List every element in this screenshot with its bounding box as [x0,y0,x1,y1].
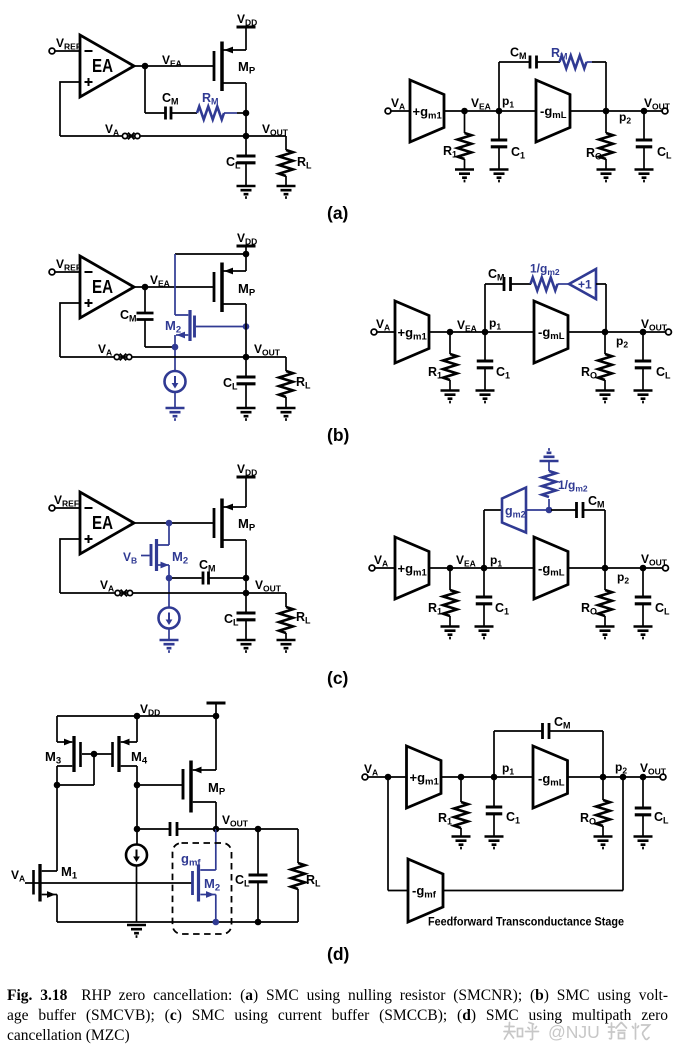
transistor M4 [111,742,114,767]
svg-text:VA: VA [391,96,405,112]
capacitor CL [245,136,247,156]
wire gm1 output to gmL input [444,110,536,112]
ground below C1 [475,627,494,639]
block -gmL [533,746,568,808]
node VOUT terminal [666,329,672,335]
svg-text:CL: CL [655,601,670,617]
svg-text:+1: +1 [578,278,592,292]
svg-text:VOUT: VOUT [222,813,249,829]
wire diode connection [57,754,94,785]
resistor RL [297,829,299,863]
resistor RO [604,332,606,354]
node VOUT terminal [663,565,669,571]
svg-text:VA: VA [11,868,25,884]
svg-text:p2: p2 [616,334,628,350]
svg-text:VA: VA [376,317,390,333]
op-amp EA [80,35,134,97]
wire EA output to MP gate [134,522,214,524]
wire p1 up to CM branch [485,284,504,332]
wire feedback from EA plus input [60,82,80,136]
node VA break symbol [122,133,140,140]
svg-text:RO: RO [580,811,596,827]
power VDD rail [57,715,216,717]
node VA break symbol [114,354,132,361]
node gm2-1/gm2 junction [546,507,553,514]
capacitor CL [643,111,645,140]
ground below current source [166,408,185,420]
wire VA input line [25,882,192,884]
svg-text:Feedforward Transconductance S: Feedforward Transconductance Stage [428,915,624,929]
block -gmL [534,301,568,363]
wire feedback from EA plus [60,303,80,357]
capacitor C1 [498,111,500,140]
power VDD T symbol [207,702,226,704]
ground below CL [237,640,256,652]
ground symbol [127,925,146,937]
ground below RL [277,408,296,420]
node VOUT [213,826,220,833]
svg-text:C1: C1 [511,145,525,161]
block -gmL [534,537,568,599]
node VOUT terminal [662,108,668,114]
capacitor C1 [483,568,485,597]
capacitor CM [166,107,172,120]
transistor MP [182,769,185,800]
capacitor CL [642,777,644,808]
resistor R1 [449,568,451,590]
wire M2 drain to VDD branch [175,253,246,255]
node CL junction [640,329,647,336]
resistor RM [197,107,224,120]
node feedforward tap [620,774,627,781]
node VA terminal [371,329,377,335]
op-amp EA [80,256,134,318]
wire VA / VOUT line [60,592,286,594]
wire feedback from EA plus [60,539,80,593]
ground below RO [596,627,615,639]
wire gm1 output to gmL input [429,331,534,333]
ground below RO [594,837,613,849]
node VOUT [243,590,250,597]
svg-text:CM: CM [199,558,216,574]
node M4 drain / MP gate [134,782,141,789]
node p2 [603,108,610,115]
svg-text:RL: RL [306,873,321,889]
resistor RO [602,777,604,800]
svg-text:CL: CL [656,365,671,381]
svg-text:p2: p2 [615,760,627,776]
buffer +1 [569,269,596,299]
ground rail [57,921,298,923]
svg-text:VDD: VDD [237,231,257,247]
resistor R1 [464,111,466,133]
wire VREF to EA minus [55,271,80,273]
transistor M3 [57,716,72,742]
svg-text:M3: M3 [45,749,61,767]
svg-text:p1: p1 [502,761,514,777]
capacitor C1 [484,332,486,361]
node VREF terminal [49,269,55,275]
wire MP drain down to VOUT [245,304,247,357]
wire gm1 output to gmL input [441,776,533,778]
wire gm1 output to gmL input [429,567,534,569]
svg-text:M2: M2 [165,318,181,336]
svg-text:R1: R1 [438,811,452,827]
resistor R1 [449,332,451,354]
svg-text:VEA: VEA [471,96,491,112]
wire gmf output to p2 [443,777,623,891]
svg-text:(a): (a) [327,203,348,223]
ground below CL [634,391,653,403]
wire node to CM [551,509,576,511]
transistor MP [213,272,216,302]
wire p1 up to gm2 input [484,510,502,568]
resistor RL [285,136,287,150]
svg-text:VEA: VEA [456,553,476,569]
node CL junction [640,565,647,572]
ground below current source [160,640,179,652]
wire VEA down to CM [145,66,166,113]
node VA break symbol [115,590,133,597]
svg-text:VREF: VREF [56,36,81,52]
wire RM to VOUT branch [224,112,237,114]
capacitor CM [203,572,209,585]
svg-text:M2: M2 [172,549,188,567]
node VREF terminal [49,505,55,511]
ground below C1 [476,391,495,403]
svg-text:RL: RL [297,155,312,171]
resistor R1 [460,777,462,802]
node p1 [481,565,488,572]
node M2 source / CM junction [172,344,179,351]
wire VA to gm1 [391,110,410,112]
block gm2 current buffer [502,488,526,533]
svg-text:CM: CM [554,715,571,731]
node VOUT terminal [660,774,666,780]
wire gm2 output to node [526,509,549,511]
capacitor CM [543,723,550,739]
capacitor CM [577,502,584,518]
svg-text:VA: VA [98,342,112,358]
wire VA to gm1 [368,776,407,778]
ground below CL [634,627,653,639]
svg-text:VOUT: VOUT [254,342,281,358]
wire buffer to p2 branch [596,284,606,332]
svg-text:(c): (c) [327,668,348,688]
svg-text:1/gm2: 1/gm2 [558,478,588,494]
svg-text:p1: p1 [489,316,501,332]
current source bias [168,578,170,608]
svg-text:CM: CM [120,308,137,324]
wire gmL output to VOUT [570,110,662,112]
wire VA / VOUT line [60,356,286,358]
svg-text:CM: CM [162,91,179,107]
svg-text:VEA: VEA [150,273,170,289]
node p1 [491,774,498,781]
svg-text:VEA: VEA [162,53,182,69]
svg-text:MP: MP [238,281,256,299]
svg-text:VDD: VDD [140,702,160,718]
svg-text:p1: p1 [502,94,514,110]
current source bias [136,829,138,844]
wire feedforward input [388,777,408,891]
svg-text:CL: CL [235,873,250,889]
svg-text:M1: M1 [61,864,78,882]
svg-text:C1: C1 [496,365,510,381]
watermark knowledge-site logo text (drawn, light gray) [504,1023,650,1040]
node mirror gate [91,751,98,758]
svg-text:VDD: VDD [237,462,257,478]
resistor RO [605,111,607,133]
svg-text:C1: C1 [506,810,520,826]
node VA terminal [362,774,368,780]
svg-text:(d): (d) [327,944,349,964]
svg-text:RO: RO [581,601,597,617]
svg-text:RO: RO [581,365,597,381]
ground below R1 [441,627,460,639]
svg-text:MP: MP [238,59,256,77]
wire gmL output to VOUT [568,331,666,333]
wire M4 drain to MP gate [137,784,183,786]
wire mirror node down to compensation cap [136,785,138,829]
node VDD rail MP tap [213,713,220,720]
svg-text:VOUT: VOUT [262,122,289,138]
node CL junction [641,108,648,115]
svg-text:p1: p1 [490,553,502,569]
svg-text:EA: EA [92,56,113,76]
transistor M2 feedforward [200,829,216,870]
node M3 drain [54,782,61,789]
svg-text:CM: CM [588,494,605,510]
node VEA [447,565,454,572]
resistor RO [604,568,606,590]
op-amp EA [80,492,134,554]
wire VA to gm1 [377,331,395,333]
node p2 [600,774,607,781]
node VDD rail M4 tap [134,713,141,720]
capacitor CL [245,357,247,377]
figure caption [7,986,668,1046]
block +gm1 [410,80,444,142]
transistor MP [213,508,216,538]
wire gmL output to VOUT [568,776,661,778]
svg-text:CL: CL [657,145,672,161]
node p1 [482,329,489,336]
capacitor CL [642,568,644,597]
node CL top [255,826,262,833]
node CL junction [640,774,647,781]
ground below RO [596,391,615,403]
node VEA [142,284,149,291]
svg-text:MP: MP [208,780,226,798]
svg-text:R1: R1 [428,601,442,617]
svg-text:CL: CL [654,810,669,826]
svg-text:RL: RL [296,375,311,391]
svg-text:VEA: VEA [457,318,477,334]
wire CM to RM [171,112,197,114]
power VDD [237,26,256,28]
svg-text:EA: EA [92,277,113,297]
block +gm1 [407,746,442,808]
wire VREF to EA minus [55,507,80,509]
ground below R1 [452,837,471,849]
svg-text:CM: CM [510,46,527,62]
svg-text:M4: M4 [131,749,148,767]
transistor M2 current buffer [158,523,170,545]
wire VREF to EA minus input [55,50,80,52]
ground below CL [635,170,654,182]
resistor 1/gm2 [531,278,558,291]
svg-text:VOUT: VOUT [644,96,671,112]
capacitor CM vertical [144,287,146,313]
svg-text:VA: VA [105,122,119,138]
svg-text:R1: R1 [443,144,457,160]
node cap tap [134,826,141,833]
wire CM to 1/gm2 [511,283,532,285]
svg-text:VOUT: VOUT [255,578,282,594]
svg-text:VOUT: VOUT [641,552,668,568]
wire EA output to MP gate [134,286,214,288]
wire p1 up to CM branch [494,731,542,777]
svg-text:VDD: VDD [237,12,257,28]
node CM-VOUT junction [243,575,250,582]
wire M3 gate to M4 gate [82,753,112,755]
dashed box around gmf stage [173,843,232,934]
node VOUT [243,133,250,140]
capacitor CM [530,56,537,69]
svg-text:VA: VA [100,578,114,594]
wire 1/gm2 to buffer [558,283,570,285]
ground below CL [634,837,653,849]
svg-text:VOUT: VOUT [641,317,668,333]
wire EA output to MP gate [134,65,214,67]
node VEA [142,63,149,70]
node RM-CM junction [243,110,250,117]
node VA terminal [385,108,391,114]
svg-text:1/gm2: 1/gm2 [530,262,560,278]
capacitor CM [504,277,511,291]
wire MP drain down to VOUT [245,83,247,136]
ground above 1/gm2 [540,449,559,461]
node VEA [461,108,468,115]
ground below C1 [490,170,509,182]
svg-text:gmf: gmf [181,851,201,869]
wire VA / VOUT line [60,135,286,137]
node VA junction [385,774,392,781]
node VEA [447,329,454,336]
node M2 source / CM junction [166,575,173,582]
ground below RO [597,170,616,182]
svg-text:VOUT: VOUT [640,761,667,777]
ground below R1 [441,391,460,403]
power VDD [237,245,256,247]
svg-text:CL: CL [223,376,238,392]
node VOUT [243,354,250,361]
node p1 [496,108,503,115]
ground below CL [237,408,256,420]
svg-text:VA: VA [364,762,378,778]
node p2 [602,329,609,336]
resistor RL [285,593,287,607]
wire M2 source to CM [172,577,202,579]
node VREF terminal [49,48,55,54]
transistor MP [213,51,216,81]
svg-text:RM: RM [202,91,219,107]
block -gmL [536,80,570,142]
svg-text:MP: MP [238,516,256,534]
svg-text:R1: R1 [428,365,442,381]
svg-text:VREF: VREF [56,257,81,273]
ground below RL [277,640,296,652]
block +gm1 [395,301,429,363]
wire VA to gm1 [375,567,395,569]
ground below RL [277,186,296,198]
wire MP drain down to VOUT [245,540,247,593]
svg-text:C1: C1 [495,601,509,617]
ground below C1 [485,837,504,849]
wire p1 up to CM branch [499,62,530,111]
ground below R1 [455,170,474,182]
wire RM to p2 branch [587,61,593,63]
capacitor CL [245,593,247,613]
capacitor CL [642,332,644,361]
wire VOUT line [216,828,298,830]
block -gmf [408,859,443,922]
node M2 source on rail [213,919,220,926]
wire CM to RM [537,61,561,63]
node M2 gate tap [243,323,250,330]
node p2 [602,565,609,572]
wire gmL output to VOUT [568,567,663,569]
svg-text:VREF: VREF [54,493,79,509]
svg-text:p2: p2 [619,110,631,126]
svg-text:VA: VA [374,553,388,569]
capacitor CL [257,829,259,875]
resistor RM [560,56,587,69]
svg-text:M2: M2 [204,876,220,894]
svg-text:EA: EA [92,513,113,533]
capacitor CM (unlabeled) [137,828,169,830]
resistor RL [285,357,287,371]
svg-text:RL: RL [296,610,311,626]
node R1 tap [458,774,465,781]
svg-text:p2: p2 [617,570,629,586]
svg-text:VB: VB [123,550,137,566]
transistor M1 [32,870,35,895]
svg-text:CM: CM [488,267,505,283]
resistor 1/gm2 [548,499,550,510]
node VA terminal [369,565,375,571]
capacitor C1 [493,777,495,807]
ground below CL [237,186,256,198]
node CL bottom [255,919,262,926]
svg-text:(b): (b) [327,425,349,445]
power VDD [237,476,256,478]
svg-text:RM: RM [551,46,568,62]
current source bias [174,347,176,371]
block +gm1 [395,537,429,599]
transistor M2 voltage buffer [188,310,191,341]
